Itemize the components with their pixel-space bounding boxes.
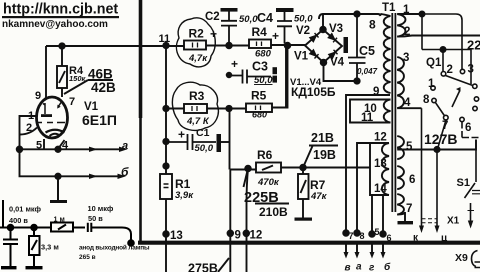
- svg-text:8: 8: [360, 231, 365, 241]
- svg-text:0,01 мкф: 0,01 мкф: [9, 205, 42, 214]
- svg-text:0,047: 0,047: [357, 67, 378, 76]
- svg-text:+: +: [178, 128, 185, 142]
- svg-text:12: 12: [250, 230, 263, 242]
- svg-text:г: г: [369, 263, 375, 272]
- svg-text:265 в: 265 в: [79, 254, 96, 261]
- svg-text:R2: R2: [189, 27, 205, 41]
- svg-text:10 мкф: 10 мкф: [88, 204, 114, 213]
- svg-text:1: 1: [428, 78, 435, 90]
- svg-text:14: 14: [374, 183, 387, 195]
- svg-text:275B: 275B: [188, 262, 218, 272]
- svg-text:C2: C2: [205, 11, 220, 23]
- svg-text:6Е1П: 6Е1П: [82, 112, 117, 128]
- svg-text:R3: R3: [189, 89, 205, 103]
- svg-text:R5: R5: [251, 89, 267, 103]
- svg-text:50 в: 50 в: [88, 214, 103, 223]
- svg-text:4,7к: 4,7к: [188, 53, 208, 64]
- svg-text:анод выходной лампы: анод выходной лампы: [79, 244, 150, 252]
- svg-text:11: 11: [361, 112, 374, 124]
- svg-text:3: 3: [403, 52, 409, 64]
- svg-text:R7: R7: [310, 178, 326, 192]
- svg-text:1: 1: [28, 110, 34, 122]
- svg-text:1 м: 1 м: [54, 214, 65, 223]
- svg-text:а: а: [122, 140, 128, 152]
- svg-text:680: 680: [255, 49, 272, 60]
- svg-text:225B: 225B: [244, 190, 279, 206]
- svg-text:б: б: [384, 261, 391, 272]
- svg-text:4: 4: [404, 97, 411, 109]
- svg-text:V3: V3: [329, 23, 343, 35]
- svg-text:+: +: [272, 29, 279, 43]
- svg-text:3,3 м: 3,3 м: [41, 243, 59, 252]
- svg-text:http://knn.cjb.net: http://knn.cjb.net: [3, 2, 118, 18]
- svg-text:680: 680: [252, 110, 267, 120]
- svg-text:V4: V4: [330, 57, 345, 69]
- svg-text:8: 8: [423, 94, 430, 106]
- svg-text:7: 7: [406, 203, 412, 215]
- svg-text:X1: X1: [447, 216, 460, 227]
- svg-text:47к: 47к: [310, 191, 328, 202]
- svg-text:50,0: 50,0: [294, 14, 313, 25]
- svg-text:13: 13: [170, 230, 183, 242]
- svg-text:470к: 470к: [257, 177, 280, 188]
- svg-text:7: 7: [349, 231, 354, 241]
- svg-text:V1: V1: [294, 51, 309, 63]
- svg-text:9: 9: [235, 230, 241, 242]
- svg-text:7: 7: [69, 96, 75, 108]
- svg-text:а: а: [356, 262, 362, 272]
- svg-text:22: 22: [467, 38, 480, 53]
- svg-text:19B: 19B: [313, 148, 336, 162]
- svg-text:5: 5: [375, 227, 380, 237]
- svg-text:R1: R1: [175, 177, 191, 191]
- svg-text:4,7 К: 4,7 К: [186, 116, 210, 127]
- svg-text:50,0: 50,0: [239, 14, 258, 25]
- svg-text:2: 2: [447, 64, 453, 76]
- svg-text:+: +: [231, 57, 238, 71]
- svg-text:12: 12: [374, 132, 387, 144]
- svg-text:Q1: Q1: [426, 57, 442, 69]
- svg-text:1: 1: [403, 4, 410, 16]
- svg-text:б: б: [121, 165, 129, 179]
- svg-text:150к: 150к: [69, 74, 87, 83]
- svg-text:C1: C1: [196, 127, 210, 139]
- svg-text:50,0: 50,0: [254, 75, 273, 86]
- svg-text:11: 11: [159, 33, 171, 45]
- svg-text:S1: S1: [457, 177, 470, 189]
- svg-text:9: 9: [35, 90, 41, 102]
- svg-text:C3: C3: [252, 60, 268, 74]
- svg-text:2: 2: [26, 122, 32, 134]
- svg-text:КД105Б: КД105Б: [291, 85, 336, 99]
- svg-text:5: 5: [406, 141, 413, 153]
- svg-text:nkamnev@yahoo.com: nkamnev@yahoo.com: [2, 19, 108, 30]
- svg-text:6: 6: [387, 233, 392, 243]
- svg-text:C5: C5: [359, 44, 375, 58]
- svg-text:3: 3: [468, 64, 474, 76]
- svg-text:R6: R6: [257, 148, 273, 162]
- svg-text:127B: 127B: [424, 131, 457, 147]
- svg-text:V2: V2: [296, 25, 310, 37]
- svg-text:T1: T1: [382, 2, 396, 14]
- svg-text:X9: X9: [455, 252, 468, 264]
- svg-text:21B: 21B: [311, 131, 334, 145]
- svg-text:6: 6: [409, 174, 415, 186]
- svg-text:42B: 42B: [91, 80, 116, 95]
- svg-text:8: 8: [369, 18, 376, 32]
- svg-text:ц: ц: [441, 233, 448, 244]
- svg-text:3,9к: 3,9к: [175, 190, 194, 201]
- svg-text:в: в: [345, 263, 351, 272]
- svg-text:13: 13: [374, 158, 387, 170]
- svg-text:400 в: 400 в: [9, 216, 28, 225]
- svg-text:9: 9: [373, 86, 379, 98]
- svg-text:C4: C4: [257, 11, 273, 25]
- svg-text:R4: R4: [252, 25, 268, 39]
- svg-text:50,0: 50,0: [195, 143, 214, 154]
- svg-text:2: 2: [404, 26, 410, 38]
- svg-text:+: +: [210, 27, 217, 41]
- svg-text:210B: 210B: [259, 205, 288, 219]
- svg-text:6: 6: [465, 122, 471, 134]
